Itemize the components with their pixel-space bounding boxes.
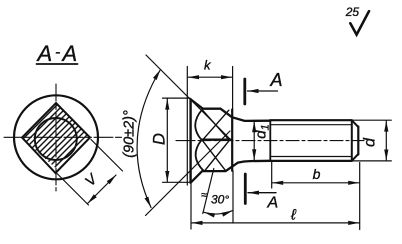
svg-text:A: A — [270, 70, 283, 90]
svg-text:(90±2)°: (90±2)° — [122, 110, 138, 158]
svg-text:D: D — [150, 133, 168, 145]
svg-text:≈: ≈ — [201, 190, 207, 202]
svg-text:d: d — [362, 137, 379, 147]
svg-text:-: - — [55, 44, 60, 61]
svg-text:A: A — [267, 195, 279, 212]
svg-text:b: b — [313, 166, 321, 182]
svg-text:V: V — [82, 171, 101, 190]
svg-text:25: 25 — [345, 5, 360, 19]
svg-text:k: k — [204, 58, 212, 73]
svg-text:A: A — [36, 41, 53, 66]
svg-text:d1: d1 — [253, 124, 272, 138]
svg-text:ℓ: ℓ — [290, 207, 297, 224]
svg-text:A: A — [61, 41, 78, 66]
svg-text:30°: 30° — [211, 193, 229, 207]
